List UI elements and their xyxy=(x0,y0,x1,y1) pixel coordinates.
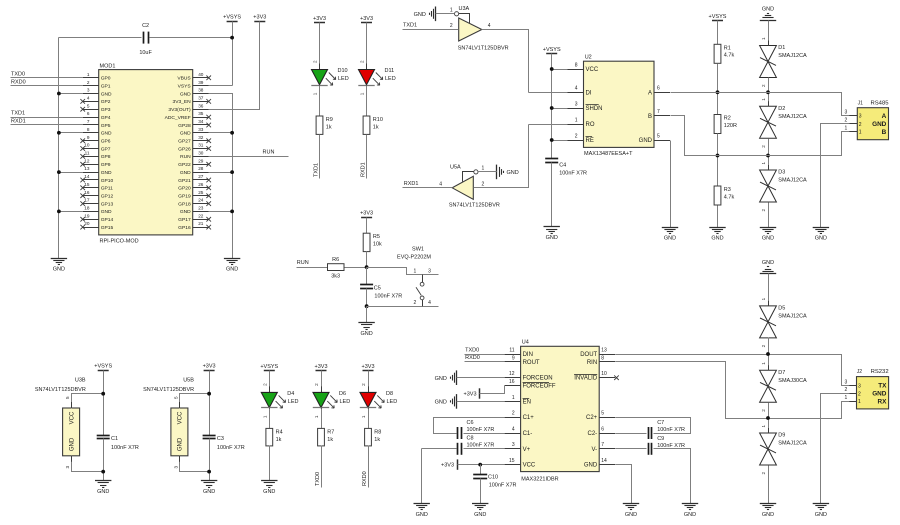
wire C8 to V+ pin xyxy=(464,448,505,450)
IC U5B SN74LV1T125DBVR power pins xyxy=(143,377,194,455)
svg-text:27: 27 xyxy=(198,174,204,179)
svg-text:8: 8 xyxy=(601,355,604,361)
svg-text:2: 2 xyxy=(761,409,766,412)
wire GND pin8 to left bus xyxy=(59,132,83,134)
MOD1 pin 20 (GP15) xyxy=(80,221,113,231)
svg-text:GND: GND xyxy=(53,266,65,272)
MOD1 pin 12 (GP9) xyxy=(80,158,110,168)
svg-text:1k: 1k xyxy=(373,124,379,130)
U2 pin 4 (DI) xyxy=(568,86,592,97)
MOD1 pin 38 (GND) xyxy=(180,88,209,98)
svg-text:J1: J1 xyxy=(858,100,864,106)
J2 pin 3 (TX) xyxy=(845,379,888,389)
svg-text:RUN: RUN xyxy=(180,154,191,160)
svg-text:MAX3221IDBR: MAX3221IDBR xyxy=(521,476,558,482)
svg-text:1: 1 xyxy=(450,7,453,13)
wire C2 right to VSYS vertical xyxy=(150,37,233,39)
svg-text:2: 2 xyxy=(450,23,453,29)
svg-text:+VSYS: +VSYS xyxy=(94,364,112,370)
wire B net U2 to J1 pin 1 xyxy=(671,116,850,156)
svg-text:+3V3: +3V3 xyxy=(315,364,328,370)
svg-text:GP9: GP9 xyxy=(101,162,111,168)
power +VSYS (D4 chain) xyxy=(264,370,275,372)
svg-text:GND: GND xyxy=(762,235,774,241)
wire D3 to GND xyxy=(768,203,770,228)
U2 pin 3 (SHDN) xyxy=(568,101,603,112)
svg-text:8: 8 xyxy=(87,127,90,132)
capacitor C4 100nF X7R xyxy=(545,159,587,177)
svg-text:37: 37 xyxy=(198,96,204,101)
MOD1 pin 13 (GND) xyxy=(83,166,112,176)
svg-text:RXD1: RXD1 xyxy=(404,181,419,187)
wire +VSYS down to VSYS pin row xyxy=(232,22,234,86)
svg-text:SN74LV1T125DBVR: SN74LV1T125DBVR xyxy=(458,46,509,52)
capacitor C10 100nF X7R xyxy=(473,475,516,489)
svg-text:GP4: GP4 xyxy=(101,115,111,121)
resistor R8 1k xyxy=(365,428,382,446)
U4 pin 13 (DOUT) xyxy=(580,347,615,358)
svg-text:GND: GND xyxy=(101,131,112,137)
U4 pin 11 (DIN) xyxy=(505,347,533,358)
svg-text:SHDN: SHDN xyxy=(586,106,603,112)
wire D5 to D7 xyxy=(768,338,770,371)
wire bus to U2 SHDN xyxy=(552,108,568,110)
svg-text:C2-: C2- xyxy=(588,431,598,437)
svg-text:GND: GND xyxy=(178,437,184,451)
ground U3B/C1 xyxy=(95,480,111,482)
svg-text:U5A: U5A xyxy=(450,164,461,170)
svg-text:39: 39 xyxy=(198,80,204,85)
svg-text:C10: C10 xyxy=(488,475,498,481)
svg-text:TX: TX xyxy=(878,383,887,390)
wire RO to buffer vertical xyxy=(529,124,568,126)
wire +3V3 to D6 xyxy=(321,371,323,393)
wire D4 to R4 xyxy=(269,409,271,429)
MOD1 pin 24 (GP18) xyxy=(178,198,211,208)
svg-text:C5: C5 xyxy=(374,286,381,292)
svg-text:RS232: RS232 xyxy=(871,369,889,375)
svg-text:SMAJ12CA: SMAJ12CA xyxy=(778,441,807,447)
ground R3 xyxy=(709,227,725,229)
op-amp buffer U3A SN74LV1T125DBVR xyxy=(458,6,509,52)
power +3V3 (U5B) xyxy=(204,370,215,372)
svg-text:GP13: GP13 xyxy=(101,201,114,207)
ground C8 xyxy=(414,503,430,505)
svg-text:GND: GND xyxy=(416,512,428,518)
junction left bus pin3 xyxy=(57,92,61,96)
svg-text:R3: R3 xyxy=(724,187,731,193)
LED D10 xyxy=(311,60,348,95)
svg-text:GND: GND xyxy=(180,91,191,97)
MOD1 pin 8 (GND) xyxy=(83,127,112,137)
svg-text:2: 2 xyxy=(858,391,861,397)
MOD1 pin 1 (GP0) xyxy=(83,72,111,82)
svg-text:28: 28 xyxy=(198,166,204,171)
svg-text:GND: GND xyxy=(180,131,191,137)
U4 pin 5 (C2+) xyxy=(586,411,615,422)
MOD1 pin 14 (GP10) xyxy=(80,174,113,184)
svg-text:LED: LED xyxy=(385,76,396,82)
svg-text:SN74LV1T125DBVR: SN74LV1T125DBVR xyxy=(143,387,194,393)
wire R1 to R2 xyxy=(717,64,719,115)
wire +VSYS bus down to C4 xyxy=(551,54,553,159)
svg-text:3V3_EN: 3V3_EN xyxy=(172,99,191,105)
svg-text:RIN: RIN xyxy=(587,360,597,366)
ground D9 xyxy=(760,503,776,505)
MOD1 pin 10 (GP7) xyxy=(80,143,110,153)
junction U5B VCC xyxy=(207,392,211,396)
wire R3 to GND xyxy=(717,206,719,228)
IC U4 MAX3221IDBR body xyxy=(521,340,600,483)
U2 pin 6 (A) xyxy=(648,86,670,97)
wire RXD0 to U4 ROUT xyxy=(465,361,505,363)
svg-text:7: 7 xyxy=(87,119,90,124)
wire RXD0 to MOD1 GP1 xyxy=(11,85,83,87)
junction C5/SW1/GND xyxy=(365,304,369,308)
svg-text:TXD1: TXD1 xyxy=(403,23,417,29)
junction VCC/C10 xyxy=(478,463,482,467)
resistor R9 1k xyxy=(316,116,333,134)
svg-text:D8: D8 xyxy=(386,391,393,397)
svg-text:GND: GND xyxy=(474,512,486,518)
svg-text:GP14: GP14 xyxy=(101,217,114,223)
wire U5A input pin 2 to U2 RO xyxy=(474,125,529,188)
svg-text:INVALID: INVALID xyxy=(574,376,598,382)
TVS diode D9 SMAJ12CA xyxy=(760,425,807,475)
U2 pin 1 (RO) xyxy=(568,117,595,128)
MOD1 pin 31 (GP26) xyxy=(178,143,211,153)
wire GND branch to C8 xyxy=(422,448,457,450)
svg-text:VCC: VCC xyxy=(178,411,184,424)
svg-text:RO: RO xyxy=(586,122,595,128)
junction D1-D2 / A wire xyxy=(766,90,770,94)
resistor R6 3k3 xyxy=(328,257,345,279)
svg-text:GND: GND xyxy=(435,400,447,406)
MOD1 pin 37 (3V3_EN) xyxy=(172,96,211,106)
svg-text:1: 1 xyxy=(575,117,578,123)
svg-text:GP5: GP5 xyxy=(101,123,111,129)
svg-text:3: 3 xyxy=(845,379,848,385)
svg-text:+3V3: +3V3 xyxy=(203,364,216,370)
wire C10 to GND xyxy=(480,479,482,504)
U2 pin 2 (RE) xyxy=(568,133,594,144)
svg-text:6: 6 xyxy=(87,111,90,116)
wire bus to U2 RE xyxy=(552,140,568,142)
wire GND pin18 to left bus xyxy=(59,211,83,213)
power +3V3 (D11 chain) xyxy=(361,22,372,24)
svg-text:16: 16 xyxy=(84,190,90,195)
wire +3V3 to FORCEOFF xyxy=(480,386,505,394)
svg-text:2: 2 xyxy=(512,411,515,417)
svg-text:4: 4 xyxy=(439,181,442,187)
U5B pin 5 (VCC) xyxy=(173,394,209,409)
wire GND pin13 to left bus xyxy=(59,172,83,174)
connector J1 RS485 body xyxy=(857,100,889,139)
svg-text:18: 18 xyxy=(84,206,90,211)
ground C4 xyxy=(544,226,560,228)
power +3V3 (D6 chain) xyxy=(316,370,327,372)
svg-text:R4: R4 xyxy=(276,429,283,435)
wire J1 pin 2 to GND xyxy=(821,124,850,228)
svg-text:D6: D6 xyxy=(339,391,346,397)
svg-text:SMAJ12CA: SMAJ12CA xyxy=(778,114,807,120)
svg-text:GND: GND xyxy=(872,121,887,128)
svg-text:32: 32 xyxy=(198,135,204,140)
svg-text:1: 1 xyxy=(262,415,267,418)
svg-text:+3V3: +3V3 xyxy=(360,16,373,22)
wire +3V3 to D11 anode xyxy=(366,23,368,70)
wire GND pin to right bus xyxy=(209,211,233,213)
svg-text:R1: R1 xyxy=(724,45,731,51)
svg-text:9: 9 xyxy=(87,135,90,140)
svg-text:17: 17 xyxy=(84,198,90,203)
U3A enable pin 1 with bubble xyxy=(450,7,470,23)
svg-text:LED: LED xyxy=(340,399,351,405)
svg-text:LED: LED xyxy=(387,399,398,405)
svg-text:10k: 10k xyxy=(373,242,382,248)
wire U4 GND pin 14 down xyxy=(616,465,632,504)
svg-text:C4: C4 xyxy=(559,162,566,168)
svg-text:SMAJ30CA: SMAJ30CA xyxy=(778,378,807,384)
svg-text:U2: U2 xyxy=(585,54,592,60)
svg-text:D5: D5 xyxy=(778,306,785,312)
svg-text:GP15: GP15 xyxy=(101,225,114,231)
svg-text:100nF X7R: 100nF X7R xyxy=(111,445,139,451)
svg-text:GND: GND xyxy=(97,489,109,495)
wire R7 to net TXD0 xyxy=(321,446,323,488)
svg-text:ROUT: ROUT xyxy=(523,360,540,366)
svg-text:1: 1 xyxy=(761,37,766,40)
svg-text:11: 11 xyxy=(509,347,514,353)
U4 pin 2 (C1+) xyxy=(505,411,535,422)
svg-text:V-: V- xyxy=(592,447,598,453)
U4 pin 14 (GND) xyxy=(584,458,615,469)
svg-text:SN74LV1T125DBVR: SN74LV1T125DBVR xyxy=(449,202,500,208)
svg-text:+3V3: +3V3 xyxy=(253,14,266,20)
capacitor C2 10uF xyxy=(139,23,152,56)
svg-text:3k3: 3k3 xyxy=(331,274,340,280)
wire RUN from MOD1 pin 30 xyxy=(209,156,289,158)
U4 pin 8 (RIN) xyxy=(587,355,615,366)
svg-text:13: 13 xyxy=(601,347,607,353)
svg-text:2: 2 xyxy=(761,344,766,347)
wire R9 to net TXD1 xyxy=(319,135,321,179)
svg-text:SMAJ12CA: SMAJ12CA xyxy=(778,314,807,320)
svg-text:GND: GND xyxy=(639,138,653,144)
MOD1 pin 34 (GP28) xyxy=(178,119,211,129)
svg-text:7: 7 xyxy=(601,442,604,448)
U4 pin 12 (FORCEON) xyxy=(505,371,553,382)
svg-text:31: 31 xyxy=(198,143,204,148)
ground SW1/C5 xyxy=(358,322,374,324)
svg-text:GND: GND xyxy=(872,390,887,397)
MOD1 pin 40 (VBUS) xyxy=(177,72,211,82)
wire TXD0 to U4 DIN xyxy=(465,354,505,356)
wire C2+ loop xyxy=(616,418,691,434)
wire junction to C5 xyxy=(366,268,368,285)
svg-text:2: 2 xyxy=(87,80,90,85)
svg-text:GP7: GP7 xyxy=(101,146,111,152)
svg-text:B: B xyxy=(648,114,652,120)
svg-text:RXD1: RXD1 xyxy=(11,119,26,125)
svg-text:3: 3 xyxy=(858,383,861,389)
wire +VSYS to R1 xyxy=(717,21,719,45)
svg-text:1: 1 xyxy=(512,395,515,401)
connector J2 RS232 body xyxy=(857,369,889,409)
svg-text:C2+: C2+ xyxy=(586,415,598,421)
U4 pin 15 (VCC) xyxy=(505,458,536,469)
svg-text:GND: GND xyxy=(180,170,191,176)
capacitor C8 100nF X7R xyxy=(458,436,495,455)
U2 pin 5 (GND) xyxy=(639,133,670,144)
op-amp buffer U5A SN74LV1T125DBVR xyxy=(449,164,500,208)
svg-text:19: 19 xyxy=(84,213,90,218)
svg-text:GND: GND xyxy=(414,12,426,18)
U5A enable pin 1 with bubble xyxy=(463,165,485,181)
wire +3V3 down to C3 xyxy=(209,371,211,436)
svg-text:1: 1 xyxy=(361,415,366,418)
svg-text:GP16: GP16 xyxy=(178,225,191,231)
TVS diode D7 SMAJ30CA xyxy=(760,362,807,412)
wire TXD1 to U3A input pin 2 xyxy=(403,29,459,31)
svg-text:1: 1 xyxy=(761,425,766,428)
svg-text:29: 29 xyxy=(198,158,204,163)
svg-text:GP3: GP3 xyxy=(101,107,111,113)
svg-text:6: 6 xyxy=(657,86,660,92)
junction U3B VCC xyxy=(101,392,105,396)
wire RIN to J2 pin 1 xyxy=(616,362,850,419)
wire C1 to GND xyxy=(103,439,105,481)
svg-text:12: 12 xyxy=(509,371,515,377)
svg-text:3: 3 xyxy=(87,88,90,93)
svg-text:GP0: GP0 xyxy=(101,76,111,82)
capacitor C9 100nF X7R xyxy=(649,436,686,455)
ground left module bus xyxy=(51,258,67,260)
wire D10 cathode to R9 xyxy=(319,86,321,117)
svg-text:C9: C9 xyxy=(657,436,664,442)
resistor R3 4.7k xyxy=(714,186,734,205)
IC U2 MAX13487EESA+T body xyxy=(584,54,655,156)
svg-text:1k: 1k xyxy=(326,124,332,130)
svg-text:4: 4 xyxy=(575,86,578,92)
U2 pin 8 (VCC) xyxy=(568,62,599,73)
ground U2 pin 5 xyxy=(662,227,678,229)
svg-text:LED: LED xyxy=(338,76,349,82)
svg-text:2: 2 xyxy=(482,181,485,187)
MOD1 pin 15 (GP11) xyxy=(80,182,113,192)
MOD1 pin 17 (GP13) xyxy=(80,198,113,208)
wire DOUT to J2 pin 3 xyxy=(616,355,850,386)
power +3V3 (U4 VCC) xyxy=(441,459,458,469)
wire +3V3 to D10 anode xyxy=(319,23,321,70)
svg-text:C3: C3 xyxy=(217,436,224,442)
svg-text:RXD0: RXD0 xyxy=(465,355,480,361)
svg-text:C2: C2 xyxy=(142,23,149,29)
junction bus/VCC xyxy=(550,67,554,71)
wire A net U2 to J1 pin 3 xyxy=(671,93,850,116)
svg-text:2: 2 xyxy=(262,383,267,386)
wire D8 to R8 xyxy=(368,409,370,429)
MOD1 pin 2 (GP1) xyxy=(83,80,111,90)
wire RUN to R6 xyxy=(297,267,328,269)
MOD1 pin 36 (3V3(OUT)) xyxy=(168,103,208,113)
ground J2 pin 2 xyxy=(813,503,829,505)
svg-text:10: 10 xyxy=(601,371,607,377)
svg-text:1: 1 xyxy=(761,362,766,365)
svg-text:1: 1 xyxy=(414,268,417,274)
MOD1 pin 28 (GND) xyxy=(180,166,209,176)
svg-text:+VSYS: +VSYS xyxy=(709,14,727,20)
svg-text:4: 4 xyxy=(512,426,515,432)
J1 pin 1 (B) xyxy=(845,126,887,136)
junction D2-D3 / B wire xyxy=(766,154,770,158)
ground U4 pin 14 xyxy=(623,503,639,505)
ground C9 xyxy=(682,503,698,505)
IC U3B SN74LV1T125DBVR power pins xyxy=(35,377,86,455)
U3B pin 3 (GND) xyxy=(65,456,103,472)
wire C9 to GND xyxy=(654,449,691,504)
svg-text:15: 15 xyxy=(84,182,90,187)
svg-text:TXD1: TXD1 xyxy=(11,111,25,117)
junction left bus pin8 xyxy=(57,131,61,135)
svg-text:D7: D7 xyxy=(778,370,785,376)
svg-text:D1: D1 xyxy=(778,45,785,51)
junction right bus xyxy=(230,210,234,214)
svg-text:TXD0: TXD0 xyxy=(11,71,25,77)
wire C4 to GND xyxy=(551,163,553,227)
svg-text:GP26: GP26 xyxy=(178,146,191,152)
svg-text:GP28: GP28 xyxy=(178,123,191,129)
MOD1 pin 35 (ADC_VREF) xyxy=(165,111,211,121)
ground J1 pin 2 xyxy=(813,227,829,229)
TVS diode D3 SMAJ12CA xyxy=(760,162,807,212)
svg-text:R5: R5 xyxy=(373,234,380,240)
TVS diode D5 SMAJ12CA xyxy=(760,297,807,347)
svg-text:+3V3: +3V3 xyxy=(464,392,477,398)
svg-text:B: B xyxy=(882,129,887,136)
svg-text:C6: C6 xyxy=(467,420,474,426)
U4 pin 7 (V-) xyxy=(592,442,616,453)
svg-text:GND: GND xyxy=(625,512,637,518)
svg-text:2: 2 xyxy=(761,472,766,475)
power +VSYS (U2) xyxy=(546,53,557,55)
svg-text:2: 2 xyxy=(575,133,578,139)
junction U3B GND xyxy=(101,470,105,474)
svg-text:2: 2 xyxy=(313,60,318,63)
svg-text:R9: R9 xyxy=(326,117,333,123)
capacitor C6 100nF X7R xyxy=(458,420,495,439)
wire GND pin3 to left bus xyxy=(59,93,83,95)
wire C3 to GND xyxy=(209,439,211,481)
wire TXD0 to MOD1 GP0 xyxy=(11,77,83,79)
MOD1 pin 27 (GP21) xyxy=(178,174,211,184)
MOD1 pin 4 (GP2) xyxy=(80,96,110,106)
wire R10 to net RXD1 xyxy=(366,135,368,179)
svg-text:+3V3: +3V3 xyxy=(362,364,375,370)
wire DI from buffer vertical xyxy=(529,92,568,94)
wire D1 to D2 xyxy=(768,78,770,107)
wire J2 pin 2 to GND xyxy=(821,394,850,504)
svg-text:4: 4 xyxy=(488,23,491,29)
wire GND pin to right bus xyxy=(209,172,233,174)
wire RXD1 to MOD1 GP5 xyxy=(11,124,83,126)
power +3V3 (R5 pull-up) xyxy=(361,217,372,219)
ground above D5 (inverted) xyxy=(760,273,776,275)
U3B pin 5 (VCC) xyxy=(65,394,103,409)
svg-text:20: 20 xyxy=(84,221,90,226)
wire +VSYS down to C1 xyxy=(103,371,105,436)
wire GND pin to right bus xyxy=(209,132,233,134)
